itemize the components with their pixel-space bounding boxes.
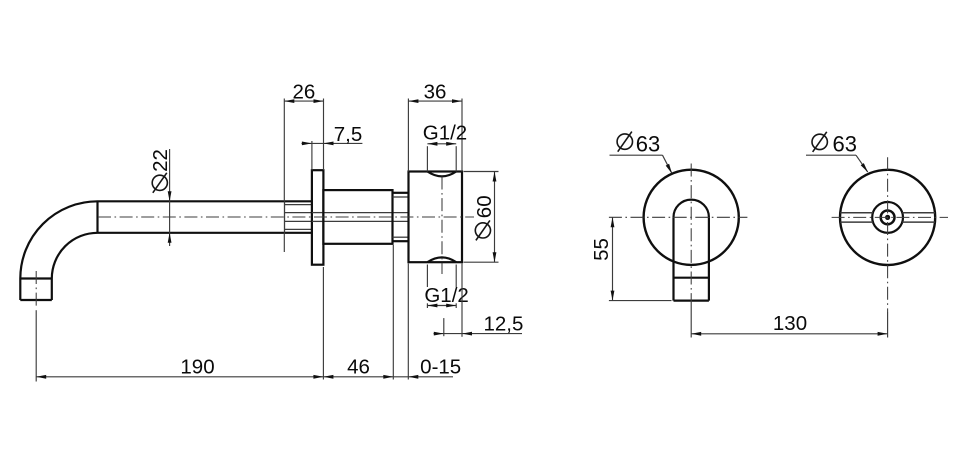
- svg-text:36: 36: [424, 81, 447, 104]
- svg-text:190: 190: [180, 355, 214, 378]
- svg-text:7,5: 7,5: [334, 123, 363, 146]
- svg-text:0-15: 0-15: [420, 355, 461, 378]
- svg-text:55: 55: [590, 238, 613, 261]
- svg-text:60: 60: [473, 195, 496, 218]
- svg-text:46: 46: [347, 355, 370, 378]
- svg-text:12,5: 12,5: [484, 312, 524, 335]
- svg-text:63: 63: [636, 131, 660, 156]
- svg-text:22: 22: [149, 149, 172, 172]
- svg-text:130: 130: [773, 312, 807, 335]
- svg-text:63: 63: [833, 131, 857, 156]
- svg-text:G1/2: G1/2: [423, 122, 467, 145]
- svg-text:26: 26: [292, 81, 315, 104]
